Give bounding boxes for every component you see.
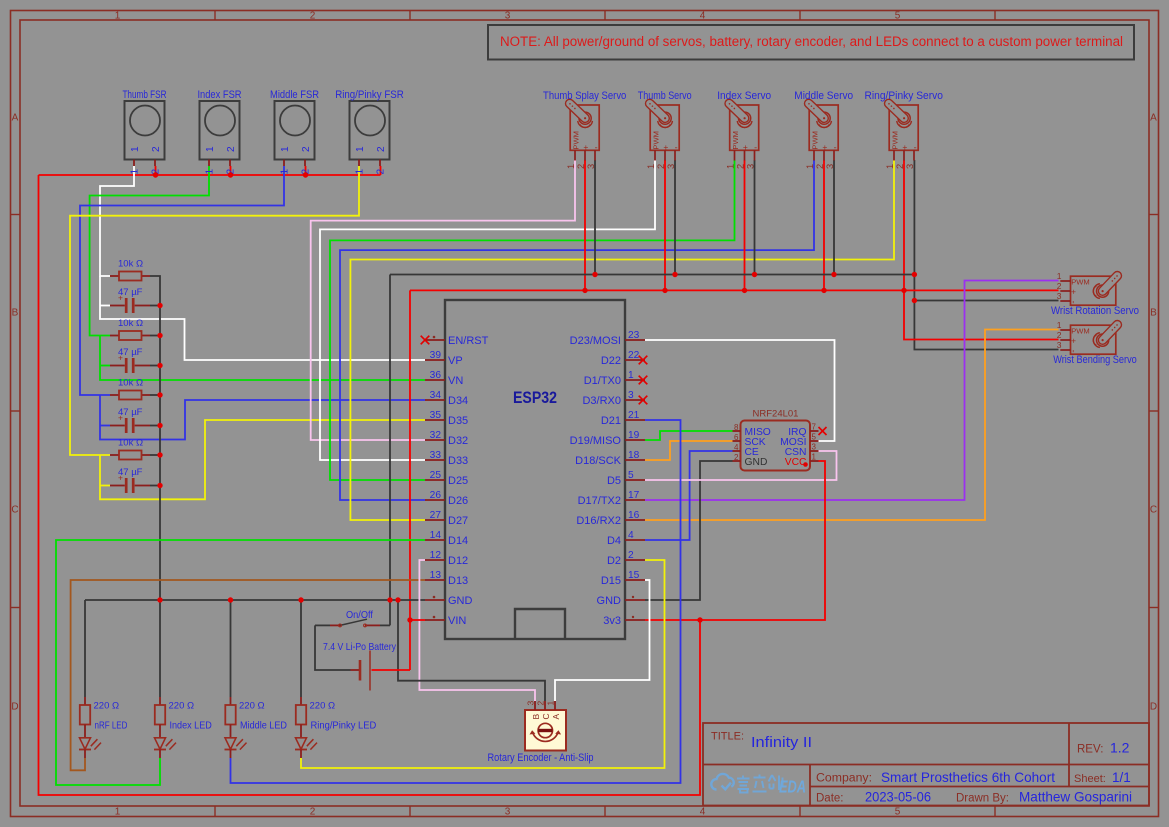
svg-text:1: 1 (205, 169, 216, 175)
svg-text:5: 5 (895, 11, 901, 22)
svg-text:47 µF: 47 µF (118, 347, 143, 358)
svg-text:NRF24L01: NRF24L01 (753, 409, 799, 420)
svg-text:1: 1 (805, 164, 815, 169)
svg-text:17: 17 (628, 490, 640, 501)
svg-text:2: 2 (734, 453, 739, 462)
svg-text:3: 3 (586, 164, 596, 169)
svg-text:A: A (1150, 113, 1157, 124)
svg-text:19: 19 (628, 430, 640, 441)
svg-text:1: 1 (628, 370, 634, 381)
svg-text:Date:: Date: (816, 793, 844, 805)
svg-text:1: 1 (130, 169, 141, 175)
svg-text:14: 14 (430, 530, 442, 541)
svg-text:Thumb Splay Servo: Thumb Splay Servo (543, 90, 626, 102)
svg-text:10k Ω: 10k Ω (118, 378, 143, 389)
svg-text:5: 5 (812, 433, 817, 442)
svg-text:B: B (1150, 308, 1157, 319)
svg-text:32: 32 (430, 430, 442, 441)
svg-text:5: 5 (628, 470, 634, 481)
svg-text:nRF LED: nRF LED (95, 721, 128, 732)
svg-text:2: 2 (376, 146, 387, 152)
svg-text:D23/MOSI: D23/MOSI (570, 335, 621, 347)
svg-text:Wrist Rotation Servo: Wrist Rotation Servo (1051, 305, 1139, 317)
svg-text:1: 1 (885, 164, 895, 169)
svg-text:22: 22 (628, 350, 640, 361)
svg-text:1: 1 (280, 146, 291, 152)
svg-text:2: 2 (310, 807, 316, 818)
svg-text:2: 2 (536, 701, 546, 706)
svg-text:D33: D33 (448, 455, 468, 467)
svg-text:D: D (11, 702, 18, 713)
svg-text:6: 6 (734, 433, 739, 442)
svg-text:2: 2 (735, 164, 745, 169)
svg-text:PWM: PWM (651, 131, 660, 150)
svg-text:36: 36 (430, 370, 442, 381)
svg-text:D17/TX2: D17/TX2 (578, 495, 621, 507)
svg-text:GND: GND (745, 457, 768, 468)
svg-text:B: B (12, 308, 19, 319)
svg-text:D3/RX0: D3/RX0 (582, 395, 621, 407)
svg-text:GND: GND (448, 595, 473, 607)
svg-text:2: 2 (376, 169, 387, 175)
svg-text:25: 25 (430, 470, 442, 481)
svg-text:Matthew Gosparini: Matthew Gosparini (1019, 789, 1132, 805)
svg-text:1/1: 1/1 (1112, 770, 1131, 785)
svg-text:18: 18 (628, 450, 640, 461)
svg-text:A: A (12, 113, 19, 124)
svg-text:D: D (1150, 702, 1157, 713)
svg-text:34: 34 (430, 390, 442, 401)
svg-text:15: 15 (628, 570, 640, 581)
svg-text:3: 3 (1057, 291, 1062, 301)
svg-text:35: 35 (430, 410, 442, 421)
svg-text:3: 3 (905, 164, 915, 169)
svg-text:1.2: 1.2 (1110, 740, 1130, 756)
svg-text:D19/MISO: D19/MISO (570, 435, 622, 447)
svg-text:D32: D32 (448, 435, 468, 447)
svg-text:Thumb FSR: Thumb FSR (122, 89, 166, 101)
svg-text:220 Ω: 220 Ω (310, 701, 336, 712)
svg-text:3: 3 (505, 11, 511, 22)
svg-text:1: 1 (115, 11, 121, 22)
svg-text:2023-05-06: 2023-05-06 (865, 789, 931, 805)
svg-text:D27: D27 (448, 515, 468, 527)
svg-text:Index LED: Index LED (170, 721, 212, 732)
svg-text:PWM: PWM (810, 131, 819, 150)
svg-text:3v3: 3v3 (603, 615, 621, 627)
svg-text:16: 16 (628, 510, 640, 521)
svg-text:3: 3 (628, 390, 634, 401)
svg-text:1: 1 (725, 164, 735, 169)
svg-text:2: 2 (895, 164, 905, 169)
svg-text:10k Ω: 10k Ω (118, 318, 143, 329)
svg-text:39: 39 (430, 350, 442, 361)
svg-text:7.4 V Li-Po Battery: 7.4 V Li-Po Battery (323, 641, 397, 653)
svg-text:D2: D2 (607, 555, 621, 567)
svg-text:D21: D21 (601, 415, 621, 427)
svg-text:Drawn By:: Drawn By: (956, 793, 1009, 805)
svg-text:23: 23 (628, 330, 640, 341)
svg-text:3: 3 (666, 164, 676, 169)
svg-text:1: 1 (115, 807, 121, 818)
svg-text:Middle LED: Middle LED (240, 721, 287, 732)
svg-text:PWM: PWM (571, 131, 580, 150)
svg-text:3: 3 (505, 807, 511, 818)
svg-text:1: 1 (1057, 320, 1062, 330)
svg-text:Index FSR: Index FSR (197, 89, 241, 101)
svg-text:33: 33 (430, 450, 442, 461)
svg-text:47 µF: 47 µF (118, 407, 143, 418)
svg-text:4: 4 (700, 807, 706, 818)
svg-text:ESP32: ESP32 (513, 388, 557, 407)
svg-text:3: 3 (1057, 340, 1062, 350)
svg-text:D14: D14 (448, 535, 468, 547)
svg-text:4: 4 (700, 11, 706, 22)
svg-text:D1/TX0: D1/TX0 (584, 375, 621, 387)
svg-text:26: 26 (430, 490, 442, 501)
svg-text:2: 2 (628, 550, 634, 561)
svg-text:1: 1 (355, 146, 366, 152)
svg-text:220 Ω: 220 Ω (94, 701, 120, 712)
svg-text:1: 1 (280, 169, 291, 175)
svg-text:Infinity II: Infinity II (751, 734, 812, 751)
svg-text:4: 4 (734, 443, 739, 452)
svg-text:1: 1 (812, 453, 817, 462)
svg-text:REV:: REV: (1077, 744, 1103, 756)
svg-text:2: 2 (301, 146, 312, 152)
svg-text:4: 4 (628, 530, 634, 541)
svg-text:2: 2 (310, 11, 316, 22)
svg-text:1: 1 (566, 164, 576, 169)
svg-text:VP: VP (448, 355, 463, 367)
svg-text:A: A (551, 714, 561, 720)
svg-text:NOTE: All power/ground of serv: NOTE: All power/ground of servos, batter… (500, 34, 1123, 49)
svg-text:3: 3 (825, 164, 835, 169)
svg-text:5: 5 (895, 807, 901, 818)
svg-text:D35: D35 (448, 415, 468, 427)
svg-text:3: 3 (745, 164, 755, 169)
svg-text:1: 1 (546, 701, 556, 706)
svg-text:C: C (1150, 505, 1157, 516)
svg-text:2: 2 (151, 146, 162, 152)
svg-text:2: 2 (576, 164, 586, 169)
svg-text:2: 2 (1057, 330, 1062, 340)
svg-text:2: 2 (1057, 281, 1062, 291)
svg-text:VN: VN (448, 375, 463, 387)
svg-text:PWM: PWM (731, 131, 740, 150)
svg-text:1: 1 (646, 164, 656, 169)
svg-text:Middle FSR: Middle FSR (270, 89, 319, 101)
svg-text:8: 8 (734, 423, 739, 432)
svg-text:27: 27 (430, 510, 442, 521)
svg-text:D16/RX2: D16/RX2 (576, 515, 621, 527)
svg-text:VCC: VCC (785, 457, 807, 468)
svg-text:D34: D34 (448, 395, 468, 407)
svg-text:1: 1 (355, 169, 366, 175)
svg-text:Smart Prosthetics 6th Cohort: Smart Prosthetics 6th Cohort (881, 769, 1055, 785)
svg-text:12: 12 (430, 550, 442, 561)
svg-text:1: 1 (1057, 271, 1062, 281)
svg-text:13: 13 (430, 570, 442, 581)
svg-text:Wrist Bending Servo: Wrist Bending Servo (1053, 354, 1137, 366)
svg-text:D13: D13 (448, 575, 468, 587)
svg-text:GND: GND (597, 595, 622, 607)
svg-text:2: 2 (656, 164, 666, 169)
svg-text:C: C (11, 505, 18, 516)
svg-text:D5: D5 (607, 475, 621, 487)
svg-text:Index Servo: Index Servo (717, 90, 771, 102)
svg-text:47 µF: 47 µF (118, 287, 143, 298)
svg-text:2: 2 (815, 164, 825, 169)
svg-text:Ring/Pinky Servo: Ring/Pinky Servo (865, 90, 943, 102)
svg-text:7: 7 (812, 423, 817, 432)
svg-text:PWM: PWM (1071, 277, 1090, 286)
svg-text:C: C (541, 713, 551, 719)
svg-text:On/Off: On/Off (346, 610, 373, 621)
svg-text:D15: D15 (601, 575, 621, 587)
svg-text:Ring/Pinky LED: Ring/Pinky LED (311, 721, 377, 732)
svg-text:VIN: VIN (448, 615, 466, 627)
svg-text:B: B (531, 714, 541, 720)
svg-text:D26: D26 (448, 495, 468, 507)
svg-text:220 Ω: 220 Ω (239, 701, 265, 712)
svg-text:2: 2 (226, 146, 237, 152)
svg-text:EN/RST: EN/RST (448, 335, 489, 347)
svg-text:3: 3 (526, 701, 536, 706)
svg-text:EDA: EDA (779, 777, 806, 797)
svg-text:D18/SCK: D18/SCK (575, 455, 622, 467)
svg-text:D25: D25 (448, 475, 468, 487)
svg-text:3: 3 (812, 443, 817, 452)
svg-text:10k Ω: 10k Ω (118, 259, 143, 270)
svg-text:10k Ω: 10k Ω (118, 438, 143, 449)
svg-text:Rotary Encoder - Anti-Slip: Rotary Encoder - Anti-Slip (488, 752, 594, 764)
svg-text:Company:: Company: (816, 773, 872, 785)
svg-text:D22: D22 (601, 355, 621, 367)
svg-text:Sheet:: Sheet: (1074, 773, 1106, 785)
svg-text:Middle Servo: Middle Servo (794, 90, 853, 102)
svg-text:D12: D12 (448, 555, 468, 567)
svg-text:21: 21 (628, 410, 640, 421)
svg-text:PWM: PWM (1071, 326, 1090, 335)
svg-text:1: 1 (130, 146, 141, 152)
svg-text:PWM: PWM (890, 131, 899, 150)
svg-text:47 µF: 47 µF (118, 467, 143, 478)
svg-text:1: 1 (205, 146, 216, 152)
svg-text:D4: D4 (607, 535, 621, 547)
svg-text:Ring/Pinky FSR: Ring/Pinky FSR (335, 89, 404, 101)
svg-text:220 Ω: 220 Ω (169, 701, 195, 712)
svg-text:TITLE:: TITLE: (711, 731, 744, 743)
svg-text:Thumb Servo: Thumb Servo (638, 90, 692, 102)
